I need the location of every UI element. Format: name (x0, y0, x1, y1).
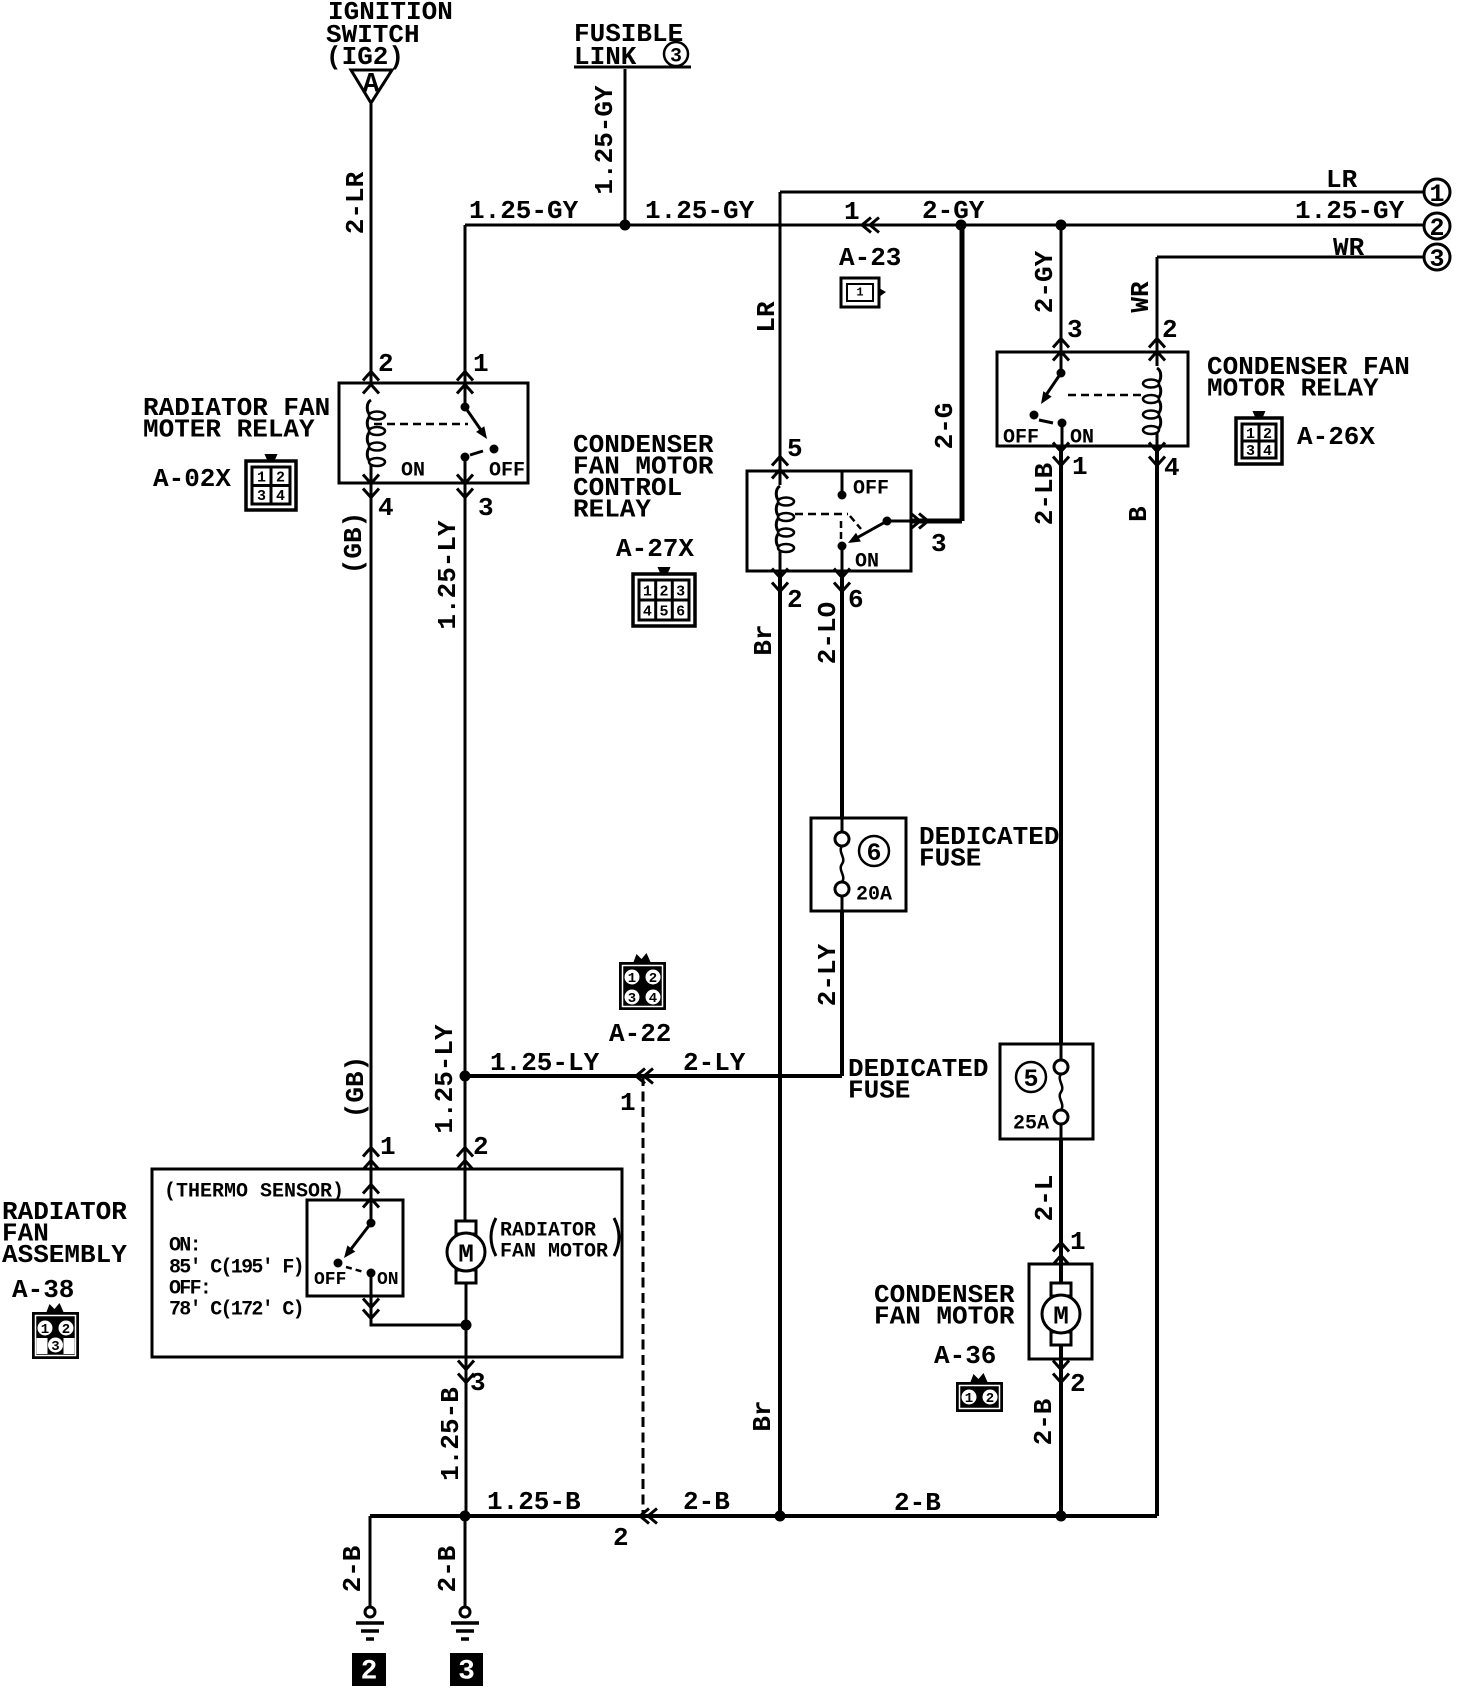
svg-text:1: 1 (620, 1088, 636, 1118)
svg-text:LR: LR (1326, 165, 1358, 195)
svg-text:1.25-B: 1.25-B (487, 1487, 581, 1517)
svg-text:5: 5 (1023, 1065, 1038, 1094)
svg-text:4: 4 (1263, 443, 1272, 460)
svg-text:A: A (363, 69, 380, 100)
svg-text:OFF: OFF (489, 460, 525, 483)
svg-text:1: 1 (380, 1132, 396, 1162)
svg-text:1.25-GY: 1.25-GY (469, 196, 579, 226)
svg-text:RADIATOR: RADIATOR (500, 1220, 596, 1243)
svg-text:2: 2 (659, 583, 668, 600)
svg-text:4: 4 (1164, 453, 1180, 483)
svg-text:2-G: 2-G (930, 403, 960, 450)
svg-text:6: 6 (866, 839, 881, 868)
svg-text:4: 4 (276, 488, 285, 505)
svg-text:2: 2 (62, 1322, 70, 1338)
svg-text:6: 6 (676, 603, 685, 620)
svg-text:85' C(195' F): 85' C(195' F) (169, 1257, 303, 1280)
svg-text:4: 4 (649, 991, 657, 1007)
svg-text:3: 3 (1246, 443, 1255, 460)
svg-text:ON: ON (377, 1270, 399, 1290)
svg-text:2-B: 2-B (683, 1487, 730, 1517)
svg-text:3: 3 (458, 1656, 475, 1687)
svg-text:4: 4 (643, 603, 652, 620)
svg-text:2-LY: 2-LY (813, 943, 843, 1006)
svg-text:1: 1 (1072, 452, 1088, 482)
svg-text:3: 3 (1429, 245, 1444, 274)
svg-text:A-36: A-36 (934, 1341, 996, 1371)
svg-text:3: 3 (470, 1368, 486, 1398)
svg-text:2: 2 (1429, 214, 1444, 243)
svg-text:OFF:: OFF: (169, 1278, 210, 1301)
svg-text:1: 1 (856, 286, 863, 300)
svg-text:2: 2 (986, 1391, 994, 1407)
svg-text:1: 1 (473, 349, 489, 379)
svg-text:1.25-B: 1.25-B (436, 1387, 466, 1481)
svg-text:2-LY: 2-LY (683, 1048, 746, 1078)
svg-text:3: 3 (931, 529, 947, 559)
svg-text:20A: 20A (856, 884, 892, 907)
svg-text:2: 2 (361, 1656, 378, 1687)
svg-text:5: 5 (659, 603, 668, 620)
svg-text:1.25-LY: 1.25-LY (430, 1024, 460, 1134)
svg-text:1: 1 (1429, 180, 1444, 209)
svg-text:2-B: 2-B (894, 1488, 941, 1518)
svg-text:2: 2 (1263, 426, 1272, 443)
svg-text:2: 2 (613, 1523, 629, 1553)
svg-text:ASSEMBLY: ASSEMBLY (2, 1240, 127, 1270)
svg-text:LINK: LINK (574, 42, 637, 72)
svg-text:A-22: A-22 (609, 1019, 671, 1049)
svg-text:(IG2): (IG2) (326, 42, 404, 72)
svg-text:3: 3 (1067, 315, 1083, 345)
svg-text:2-B: 2-B (433, 1545, 463, 1592)
svg-text:2-B: 2-B (1029, 1398, 1059, 1445)
svg-text:3: 3 (257, 488, 266, 505)
svg-text:B: B (1124, 506, 1154, 522)
svg-text:MOTOR RELAY: MOTOR RELAY (1207, 374, 1379, 404)
svg-text:FUSE: FUSE (919, 844, 981, 874)
svg-text:2: 2 (1070, 1369, 1086, 1399)
svg-text:1.25-LY: 1.25-LY (433, 520, 463, 630)
svg-text:ON:: ON: (169, 1235, 200, 1258)
svg-text:LR: LR (752, 301, 782, 333)
svg-text:M: M (458, 1240, 474, 1270)
svg-text:2-GY: 2-GY (922, 196, 985, 226)
svg-text:(GB): (GB) (339, 512, 369, 574)
svg-text:WR: WR (1333, 233, 1365, 263)
svg-text:2: 2 (1162, 315, 1178, 345)
svg-text:2-B: 2-B (338, 1545, 368, 1592)
svg-text:5: 5 (787, 434, 803, 464)
svg-text:(GB): (GB) (341, 1056, 371, 1118)
svg-text:A-23: A-23 (839, 243, 901, 273)
svg-text:1: 1 (1070, 1227, 1086, 1257)
svg-text:(THERMO SENSOR): (THERMO SENSOR) (164, 1181, 344, 1204)
svg-text:1: 1 (844, 197, 860, 227)
svg-text:1.25-GY: 1.25-GY (590, 85, 620, 195)
svg-text:A-26X: A-26X (1297, 422, 1375, 452)
svg-text:Br: Br (748, 1400, 778, 1431)
svg-text:ON: ON (1070, 427, 1094, 450)
svg-text:2: 2 (787, 585, 803, 615)
svg-text:ON: ON (855, 551, 879, 574)
svg-text:2: 2 (378, 349, 394, 379)
svg-text:M: M (1053, 1302, 1069, 1332)
svg-text:1: 1 (1246, 426, 1255, 443)
svg-text:2-LB: 2-LB (1030, 462, 1060, 525)
svg-text:WR: WR (1126, 281, 1156, 313)
svg-text:1: 1 (41, 1322, 49, 1338)
svg-text:2-LO: 2-LO (813, 602, 843, 664)
svg-text:6: 6 (848, 585, 864, 615)
svg-text:1: 1 (257, 470, 266, 487)
svg-text:FUSE: FUSE (848, 1076, 910, 1106)
svg-text:OFF: OFF (853, 478, 889, 501)
svg-text:2: 2 (473, 1132, 489, 1162)
svg-text:3: 3 (628, 991, 636, 1007)
svg-text:1: 1 (628, 971, 636, 987)
svg-text:4: 4 (378, 493, 394, 523)
svg-text:1.25-GY: 1.25-GY (1295, 196, 1405, 226)
svg-text:Br: Br (749, 624, 779, 655)
svg-text:RELAY: RELAY (573, 495, 651, 525)
svg-text:1: 1 (965, 1391, 973, 1407)
svg-text:A-38: A-38 (12, 1275, 74, 1305)
svg-text:A-27X: A-27X (616, 534, 694, 564)
svg-text:2-GY: 2-GY (1030, 250, 1060, 313)
svg-text:1.25-LY: 1.25-LY (490, 1048, 600, 1078)
svg-text:FAN MOTOR: FAN MOTOR (500, 1241, 608, 1264)
svg-text:OFF: OFF (1003, 427, 1039, 450)
svg-text:FAN MOTOR: FAN MOTOR (874, 1302, 1015, 1332)
svg-text:2: 2 (649, 971, 657, 987)
svg-text:1: 1 (643, 583, 652, 600)
svg-text:3: 3 (478, 493, 494, 523)
svg-text:78' C(172' C): 78' C(172' C) (169, 1299, 303, 1322)
svg-text:OFF: OFF (314, 1270, 346, 1290)
svg-text:3: 3 (51, 1339, 59, 1355)
svg-text:ON: ON (401, 460, 425, 483)
svg-text:3: 3 (676, 583, 685, 600)
svg-text:1.25-GY: 1.25-GY (645, 196, 755, 226)
svg-text:A-02X: A-02X (153, 464, 231, 494)
svg-text:2-LR: 2-LR (341, 171, 371, 234)
svg-text:25A: 25A (1013, 1113, 1049, 1136)
svg-text:MOTER RELAY: MOTER RELAY (143, 415, 315, 445)
svg-text:2: 2 (276, 470, 285, 487)
svg-text:2-L: 2-L (1030, 1175, 1060, 1222)
